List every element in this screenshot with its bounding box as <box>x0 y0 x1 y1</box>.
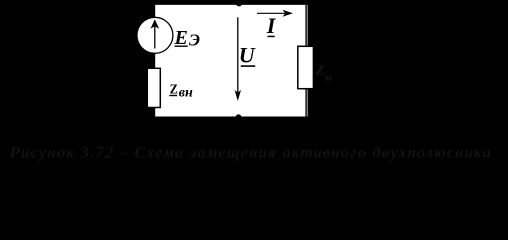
svg-text:U: U <box>239 42 256 67</box>
svg-text:Z: Z <box>315 63 325 79</box>
wire: right <box>305 5 307 117</box>
label U <box>239 42 256 67</box>
svg-text:вн: вн <box>179 86 193 101</box>
current arrow I (to the right) <box>257 10 293 17</box>
node dot (bottom) <box>235 114 241 120</box>
svg-text:Рисунок 3.72 – Схема замещ: Рисунок 3.72 – Схема замещения активного… <box>9 145 492 162</box>
label E_Э <box>174 27 201 50</box>
label I <box>266 13 277 38</box>
EMF source E_Э (circle with upward arrow) <box>137 17 173 53</box>
node dot (top) <box>236 0 242 6</box>
label z_вн <box>169 82 193 100</box>
label Z_н (faint, on black background) <box>315 63 333 84</box>
svg-text:н: н <box>325 70 332 84</box>
svg-text:Э: Э <box>189 31 200 50</box>
figure background (white drawing area) <box>155 5 308 117</box>
wire: top (runs along the white top edge, black against black above) <box>155 3 308 5</box>
impedance Z_вн (internal impedance box) <box>147 68 160 107</box>
svg-text:I: I <box>266 13 277 38</box>
wire: left (runs along the white left edge) <box>154 5 156 117</box>
wire: bottom (runs along the white bottom edge) <box>155 116 308 118</box>
voltage arrow U (downward) <box>235 17 241 101</box>
impedance Z_н (load impedance box) <box>298 46 314 88</box>
